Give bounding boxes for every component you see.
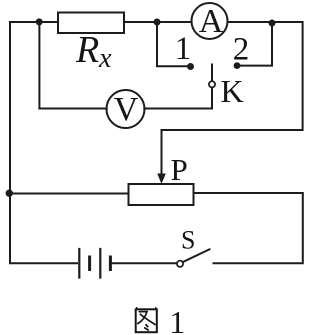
- svg-text:S: S: [181, 226, 195, 255]
- svg-text:1: 1: [175, 31, 192, 67]
- svg-text:K: K: [221, 73, 244, 109]
- svg-text:V: V: [114, 91, 139, 128]
- svg-text:P: P: [171, 152, 188, 187]
- svg-text:2: 2: [233, 32, 250, 68]
- svg-text:1: 1: [169, 304, 185, 335]
- svg-text:A: A: [199, 3, 224, 40]
- svg-text:R: R: [75, 29, 99, 71]
- svg-text:x: x: [98, 43, 112, 74]
